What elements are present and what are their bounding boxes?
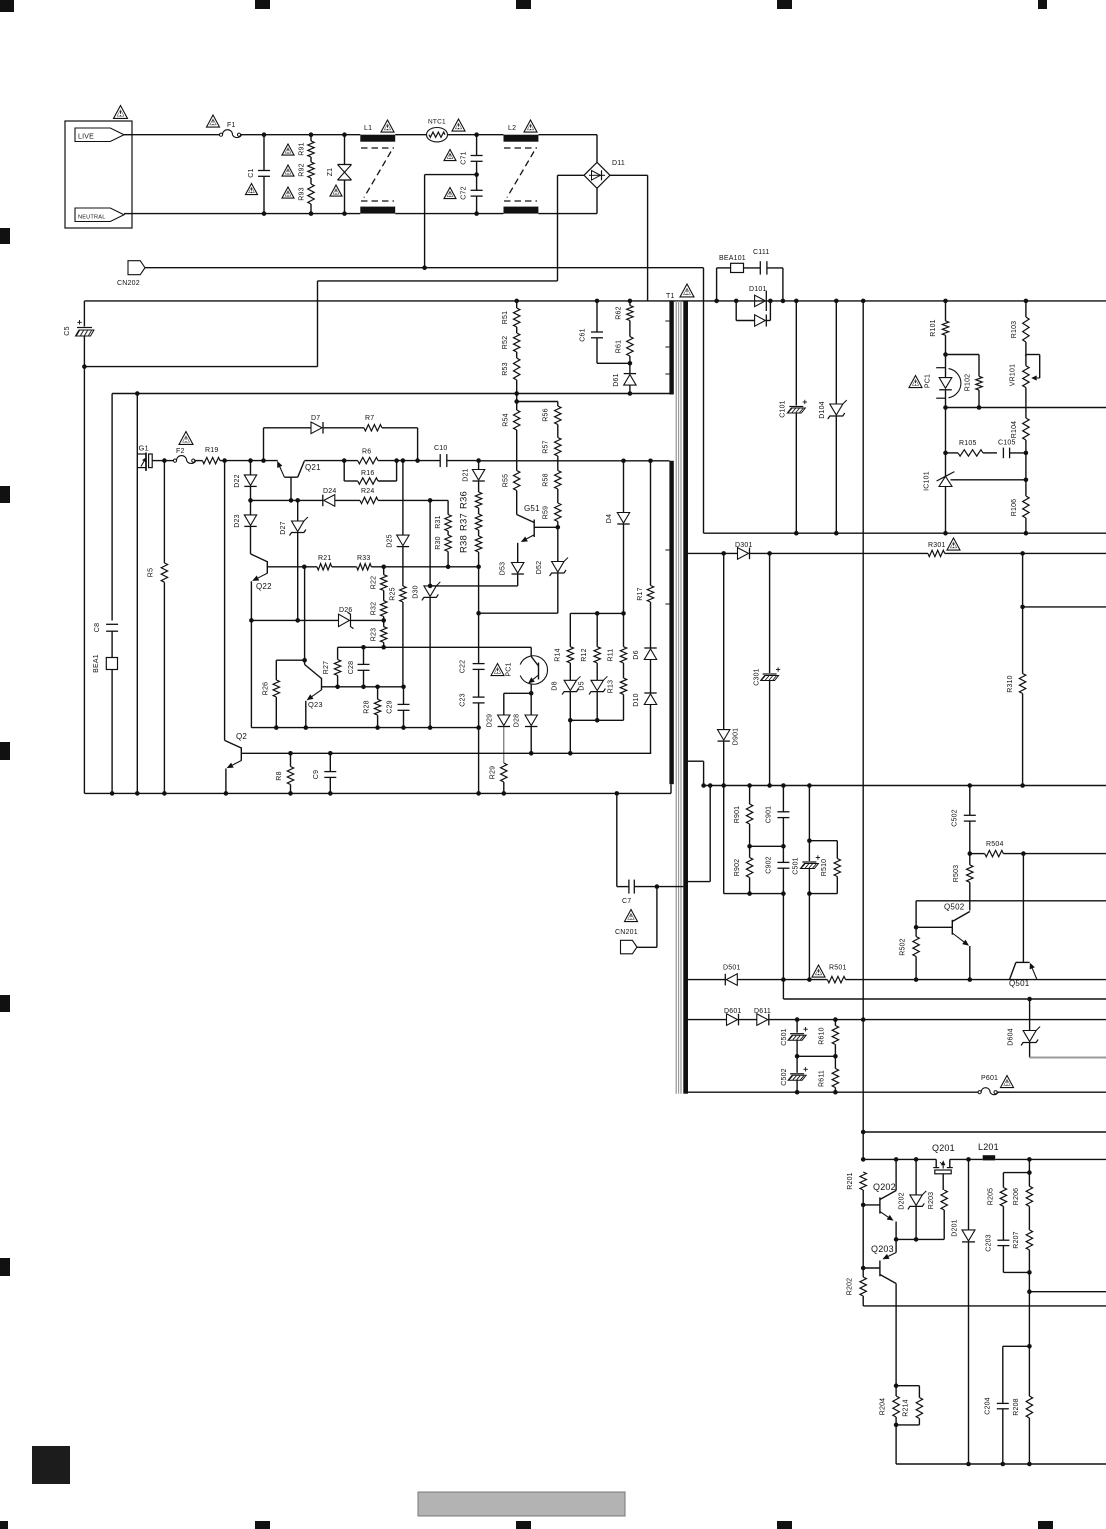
node R59 bottom G51 base <box>556 525 561 530</box>
svg-text:D6: D6 <box>633 650 640 659</box>
resistor R36 <box>478 482 480 493</box>
zener D52 <box>557 527 559 561</box>
resistor R901 <box>749 786 751 805</box>
node Q23 collector top <box>302 565 307 570</box>
warning triangle R92 <box>282 165 294 176</box>
diode D6 <box>644 647 656 649</box>
svg-text:D601: D601 <box>724 1008 742 1015</box>
wire bottom rail to edge <box>997 1091 1106 1093</box>
resistor R310 <box>1022 607 1024 674</box>
resistor R102 <box>943 352 948 357</box>
bracket R204 R214 bottom <box>896 1424 919 1426</box>
resistor R902 <box>749 846 751 857</box>
wire neutral L1 to L2 <box>395 213 503 215</box>
svg-text:Q502: Q502 <box>944 903 965 912</box>
wire CN202 line <box>145 267 704 269</box>
node live-Z1 <box>342 132 347 137</box>
node bottom C23 <box>476 791 481 796</box>
diode D201 <box>968 1159 970 1230</box>
svg-text:C502: C502 <box>952 809 959 827</box>
node C901 rail <box>781 783 786 788</box>
node R610 top <box>833 1017 838 1022</box>
resistor R54 <box>516 402 518 411</box>
svg-text:D501: D501 <box>723 965 741 972</box>
node D4 bottom bracket <box>621 611 626 616</box>
wire neutral <box>124 213 132 215</box>
bracket C501b R610 <box>797 1055 835 1057</box>
svg-text:R93: R93 <box>299 187 306 200</box>
capacitor C23 <box>478 669 480 697</box>
svg-text:C902: C902 <box>766 856 773 874</box>
bracket 901 <box>750 845 784 847</box>
svg-text:R62: R62 <box>616 306 623 319</box>
wire bracket to Q203 <box>895 1239 897 1252</box>
capacitor C29 <box>403 687 405 705</box>
svg-text:R208: R208 <box>1013 1398 1020 1416</box>
node rail Q23 <box>304 725 309 730</box>
svg-text:Q22: Q22 <box>256 582 272 591</box>
svg-text:L2: L2 <box>508 125 516 132</box>
wire D7 R7 branch <box>263 428 265 461</box>
svg-text:R301: R301 <box>928 542 946 549</box>
node bottom-R5 <box>162 791 167 796</box>
wire C71-C72 midpoint to CN202 line <box>425 174 477 176</box>
wire secondary common rail <box>704 785 1106 787</box>
node R8 top <box>288 751 293 756</box>
svg-text:C1: C1 <box>248 168 255 177</box>
svg-text:R103: R103 <box>1011 321 1018 339</box>
warning triangle R91 <box>282 144 294 155</box>
svg-text:Q21: Q21 <box>305 463 321 472</box>
svg-text:R504: R504 <box>986 841 1004 848</box>
wire to C10 <box>397 460 441 462</box>
wire D604 gray line <box>1030 1057 1106 1059</box>
wire left rail with C5 <box>83 301 85 327</box>
node C501 D501 line <box>807 977 812 982</box>
svg-text:C203: C203 <box>986 1234 993 1252</box>
wire inner top line <box>112 393 670 395</box>
svg-text:D301: D301 <box>735 542 753 549</box>
node bottom R29 <box>502 791 507 796</box>
registration mark left 3 <box>0 742 10 760</box>
svg-text:NTC1: NTC1 <box>428 119 446 126</box>
svg-text:R6: R6 <box>362 449 371 456</box>
node rail C204 <box>1001 1462 1006 1467</box>
wire T1 bottom tap rail <box>688 1091 979 1093</box>
svg-text:D202: D202 <box>899 1192 906 1210</box>
resistor R24 <box>360 497 378 503</box>
resistor R503 <box>967 865 973 882</box>
terminal NEUTRAL <box>75 208 124 222</box>
warning triangle R501 <box>812 965 825 977</box>
svg-text:Q201: Q201 <box>932 1143 955 1153</box>
node D104 bottom <box>834 531 839 536</box>
resistor R57 <box>557 425 559 438</box>
node IC101 bottom <box>943 531 948 536</box>
registration mark top 3 <box>516 0 531 9</box>
node bottom-x137 <box>135 791 140 796</box>
svg-text:R502: R502 <box>900 938 907 956</box>
capacitor C22 <box>478 613 480 663</box>
wire line 900 to edge <box>916 900 1106 902</box>
node C29 top <box>401 685 406 690</box>
svg-text:D604: D604 <box>1008 1028 1015 1046</box>
warning triangle T1 <box>680 284 694 297</box>
svg-text:D24: D24 <box>323 488 336 495</box>
resistor R61 <box>629 321 631 337</box>
svg-text:R206: R206 <box>1013 1188 1020 1206</box>
wire line 407 to edge <box>946 407 1106 409</box>
wire C10 to D21 <box>447 460 479 462</box>
node CN202-C7172 <box>422 265 427 270</box>
resistor R17 <box>650 461 652 586</box>
wire D53 bottom to D30 <box>430 585 518 587</box>
wire T1 tap C7 left <box>634 886 683 888</box>
svg-text:R37: R37 <box>459 513 470 531</box>
svg-text:G1: G1 <box>139 444 149 453</box>
node neutral-C72 <box>474 211 479 216</box>
transistor Q2 <box>224 461 226 741</box>
wire D23 to Q22 collector <box>250 527 252 554</box>
node neutral-Z1 <box>342 211 347 216</box>
node R23 bottom <box>381 645 386 650</box>
shunt regulator IC101 <box>939 476 952 486</box>
resistor R52 <box>516 327 518 333</box>
diode D23 <box>250 500 252 515</box>
resistor R201 <box>860 1172 866 1190</box>
svg-text:D29: D29 <box>487 714 494 727</box>
svg-text:D25: D25 <box>387 534 394 547</box>
bracket D8 D5 R13 bottoms <box>570 719 623 721</box>
node D604 top <box>1027 997 1032 1002</box>
svg-text:R17: R17 <box>637 587 644 600</box>
registration mark left 4 <box>0 995 10 1012</box>
resistor R7 <box>364 425 382 431</box>
svg-text:C8: C8 <box>94 623 101 632</box>
resistor R58 <box>555 471 561 490</box>
wire Q201 row <box>863 1158 936 1160</box>
resistor R205 <box>1002 1173 1004 1188</box>
node PC1 emitter <box>529 691 534 696</box>
node R103 top <box>1024 299 1029 304</box>
capacitor C203 <box>1002 1206 1004 1240</box>
wire IC101 ref <box>951 479 1026 481</box>
resistor R5 <box>163 461 165 563</box>
diode D61 <box>629 363 631 373</box>
fuse P601 <box>978 1091 981 1094</box>
resistor R27 <box>337 647 339 659</box>
node D201 top <box>966 1157 971 1162</box>
connector box AC inlet <box>65 121 132 228</box>
node R101 top <box>943 299 948 304</box>
warning triangle R93 <box>282 187 294 198</box>
node R12 top <box>595 611 600 616</box>
node D26-R32R23 <box>381 618 386 623</box>
node C902 bottom <box>781 891 786 896</box>
node live-R91 <box>309 132 314 137</box>
node Q502 base R502 <box>914 925 919 930</box>
node C902 D501 line <box>781 977 786 982</box>
wire row Q201 to L201 <box>950 1158 983 1160</box>
resistor R38 <box>478 530 480 536</box>
svg-text:R58: R58 <box>543 473 550 486</box>
svg-text:R55: R55 <box>503 474 510 487</box>
diode D21 <box>478 461 480 470</box>
resistor R501 <box>827 976 845 982</box>
resistor R26 <box>276 659 304 661</box>
svg-text:D22: D22 <box>234 474 241 487</box>
capacitor C72 <box>476 175 478 191</box>
node C501b bottom <box>795 1054 800 1059</box>
node R106 bottom <box>1024 531 1029 536</box>
wire live to L1 <box>240 134 360 136</box>
svg-text:D11: D11 <box>612 160 625 167</box>
warning triangle F2 <box>179 432 193 445</box>
node C501b top <box>795 1017 800 1022</box>
registration mark bottom 4 <box>777 1521 792 1529</box>
wire PC1 to IC101 <box>945 408 947 477</box>
ferrite bead BEA1 <box>106 658 117 670</box>
node C502 R504 <box>968 851 973 856</box>
resistor R208 <box>1028 1346 1030 1396</box>
diode D611 <box>757 1014 768 1026</box>
node R310 top <box>1020 551 1025 556</box>
resistor R214 <box>896 1385 919 1387</box>
node main output top <box>861 299 866 304</box>
zener D25 <box>402 461 404 535</box>
resistor R55 <box>514 471 520 491</box>
resistor R105 <box>946 452 959 454</box>
svg-text:R207: R207 <box>1013 1231 1020 1249</box>
wire R19 to Q21 <box>220 460 278 462</box>
node R102 bottom <box>977 405 982 410</box>
diode D24 <box>322 495 324 507</box>
svg-text:C501: C501 <box>793 857 800 875</box>
svg-text:R23: R23 <box>371 628 378 641</box>
resistor R12 <box>596 613 598 646</box>
capacitor C501 output <box>796 1020 798 1033</box>
node Q202 collector <box>894 1157 899 1162</box>
resistor chain R22 <box>383 567 385 575</box>
warning triangle C72 <box>444 188 456 199</box>
node R62 top <box>628 299 633 304</box>
node C9 top <box>328 751 333 756</box>
node D21 top <box>476 458 481 463</box>
resistor R203 <box>941 1190 947 1210</box>
svg-text:R52: R52 <box>502 336 509 349</box>
svg-text:R32: R32 <box>371 602 378 615</box>
diode D22 <box>250 461 252 475</box>
line D52 to C22 <box>479 612 558 614</box>
node R104 bottom <box>1024 451 1029 456</box>
node C28 top <box>361 645 366 650</box>
zener D30 <box>429 500 431 586</box>
svg-text:R105: R105 <box>959 440 977 447</box>
svg-text:R205: R205 <box>988 1188 995 1206</box>
wire C23 chain to box bottom <box>478 728 480 794</box>
node bottom Q2 emitter <box>224 791 229 796</box>
capacitor C301 <box>769 553 771 673</box>
svg-text:D26: D26 <box>339 607 352 614</box>
registration mark top-right <box>1038 0 1047 9</box>
diode D28 <box>530 693 532 715</box>
svg-text:R104: R104 <box>1011 421 1018 439</box>
svg-text:C5: C5 <box>64 326 71 335</box>
wire C902 chain down <box>782 894 784 980</box>
diode D7 <box>311 422 322 434</box>
connector CN201 <box>621 940 638 954</box>
wire D901 vertical <box>721 551 726 556</box>
svg-text:D5: D5 <box>579 681 586 690</box>
svg-text:R33: R33 <box>357 555 370 562</box>
wire R38 bottom to C22 chain <box>478 567 480 613</box>
svg-text:D4: D4 <box>606 514 613 523</box>
resistor R23 <box>381 627 387 643</box>
line R27 C28 to PC1 <box>338 646 532 648</box>
capacitor C502 <box>969 786 971 816</box>
svg-text:R101: R101 <box>930 319 937 337</box>
wire line 1306 to edge <box>863 1305 1106 1307</box>
svg-text:D23: D23 <box>234 514 241 527</box>
svg-text:D10: D10 <box>633 693 640 706</box>
wire box bottom to C7 <box>616 793 618 886</box>
node D8 bottom <box>568 718 573 723</box>
node R6 left <box>342 458 347 463</box>
zener D5 <box>596 663 598 680</box>
line Q2 base R8 C9 <box>241 752 651 754</box>
svg-text:F1: F1 <box>227 122 236 129</box>
svg-text:R54: R54 <box>503 413 510 426</box>
registration mark left 5 <box>0 1258 10 1276</box>
node R204 bracket top <box>894 1383 899 1388</box>
node bottom-x112 <box>110 791 115 796</box>
wire C61 to R61 <box>597 362 630 364</box>
diode D10 <box>650 660 652 694</box>
node R610 bottom <box>833 1054 838 1059</box>
line D24 R24 <box>251 499 323 501</box>
resistor R510 <box>836 841 838 859</box>
zener D8 <box>569 663 571 680</box>
svg-text:Q23: Q23 <box>308 700 323 709</box>
svg-text:C901: C901 <box>766 806 773 824</box>
node D27 bottom <box>295 618 300 623</box>
bracket R205 R206 <box>1003 1172 1029 1174</box>
node D101 left <box>734 299 739 304</box>
node R901 bottom <box>747 844 752 849</box>
svg-text:R38: R38 <box>459 535 470 553</box>
capacitor C61 <box>596 301 598 332</box>
wire D11 right corner to rail <box>610 174 648 176</box>
wire C7 to CN201 <box>656 887 658 948</box>
resistor R6 <box>344 460 358 462</box>
resistor R504 <box>970 853 985 855</box>
capacitor C902 <box>782 846 784 862</box>
node C301 top <box>767 551 772 556</box>
svg-text:R106: R106 <box>1011 499 1018 517</box>
node R902 bottom <box>747 891 752 896</box>
svg-text:R8: R8 <box>276 771 283 780</box>
svg-text:C10: C10 <box>434 445 447 452</box>
node D202 top <box>914 1157 919 1162</box>
zener D202 <box>915 1159 917 1195</box>
node Q502 emitter <box>968 977 973 982</box>
node C301 rail <box>767 783 772 788</box>
svg-text:C28: C28 <box>348 661 355 674</box>
wire 101 block bottom rail <box>704 532 1106 534</box>
choke L1 <box>360 135 395 142</box>
svg-text:D611: D611 <box>754 1008 771 1015</box>
node D7 branch <box>261 458 266 463</box>
svg-text:D901: D901 <box>733 728 740 746</box>
resistor R13 <box>623 663 625 678</box>
warning triangle L2 <box>524 120 537 132</box>
node C901 bottom <box>781 844 786 849</box>
svg-text:D27: D27 <box>280 521 287 534</box>
node row left <box>861 1157 866 1162</box>
warning triangle Z1 <box>330 185 342 196</box>
zener D26 <box>339 614 350 626</box>
warning triangle P601 <box>1001 1076 1014 1088</box>
capacitor C5 <box>77 327 92 329</box>
resistor R103 <box>1025 301 1027 317</box>
resistor R14 <box>569 613 571 646</box>
svg-text:BEA101: BEA101 <box>719 255 746 262</box>
node R61 bottom <box>628 361 633 366</box>
transformer T1 primary winding 1 <box>669 301 673 395</box>
svg-text:D7: D7 <box>311 415 320 422</box>
choke L2 <box>504 135 539 142</box>
svg-text:G51: G51 <box>524 504 540 513</box>
svg-text:Q501: Q501 <box>1009 979 1030 988</box>
svg-text:LIVE: LIVE <box>78 133 94 140</box>
svg-text:C71: C71 <box>461 151 468 164</box>
resistor R32 <box>383 591 385 601</box>
node D30 top D53 line <box>428 584 433 589</box>
svg-text:C501: C501 <box>781 1028 788 1046</box>
wire live <box>124 134 132 136</box>
node neutral-C1 <box>262 211 267 216</box>
svg-text:R510: R510 <box>821 859 828 877</box>
node D8 chain to Q2 line <box>568 751 573 756</box>
resistor R611 <box>834 1056 836 1068</box>
varistor Z1 <box>344 135 346 165</box>
transistor Q21 <box>290 477 292 500</box>
svg-text:R36: R36 <box>459 491 470 509</box>
svg-text:R91: R91 <box>299 142 306 155</box>
diode D29 <box>498 715 510 726</box>
node tap1 rail <box>701 783 706 788</box>
svg-text:Q202: Q202 <box>873 1182 896 1192</box>
node R105 left <box>943 451 948 456</box>
node R310 rail <box>1020 783 1025 788</box>
svg-text:C22: C22 <box>460 660 467 673</box>
potentiometer VR101 <box>1025 355 1027 366</box>
gray title bar <box>418 1492 625 1516</box>
wire long output vertical <box>862 301 864 1160</box>
node C501a rail <box>807 783 812 788</box>
zener D27 <box>297 500 299 521</box>
svg-text:PC1: PC1 <box>506 662 513 676</box>
node R504 Q501 <box>1021 851 1026 856</box>
wire vertical x137 with G1 <box>136 394 138 794</box>
svg-text:R201: R201 <box>847 1172 854 1190</box>
warning triangle L1 <box>381 120 394 132</box>
node D25 top <box>401 458 406 463</box>
svg-text:BEA1: BEA1 <box>93 654 100 673</box>
warning triangle R301 <box>947 538 960 550</box>
svg-text:R5: R5 <box>148 568 155 577</box>
node rail D201 <box>966 1462 971 1467</box>
